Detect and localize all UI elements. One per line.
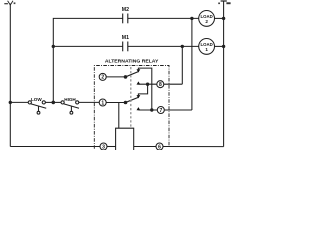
switch blade top (to upper contact) <box>126 72 139 77</box>
wire terminal 7 riser to M2 line <box>191 18 193 110</box>
node L1/control junction <box>9 101 12 104</box>
float switch LOW hanger rod <box>38 106 40 111</box>
wire terminal 8 line <box>138 83 156 85</box>
wire coil to terminal 6 <box>134 146 156 148</box>
wire terminal 8 riser to M1 line <box>181 46 183 84</box>
svg-text:2: 2 <box>205 19 208 24</box>
terminal 8 circle <box>157 81 164 88</box>
wire terminal 2 to pole <box>106 76 125 78</box>
float switch HIGH pivot <box>61 101 64 104</box>
L1 tiny label left <box>4 3 8 4</box>
node M1/load1 junction <box>181 45 184 48</box>
contact arrow bottom-upper <box>137 95 141 98</box>
svg-text:7: 7 <box>159 108 162 114</box>
contact arrow top-upper <box>137 69 141 72</box>
wire LOW to junction <box>45 101 61 103</box>
float switch HIGH blade <box>64 104 79 108</box>
svg-text:LOAD: LOAD <box>201 14 214 19</box>
terminal 1 circle <box>99 99 106 106</box>
wire L1 to LOW switch <box>10 101 28 103</box>
wire top-upper contact to cross link <box>138 68 151 110</box>
wire coil feed from terminal 1 line <box>118 103 120 129</box>
wire M1 line right segment <box>128 45 199 47</box>
float switch HIGH hanger rod <box>70 106 72 111</box>
L2 source bar <box>221 0 227 2</box>
power rail L1 (left vertical) <box>9 4 11 147</box>
wire load2 to L2 <box>215 17 224 19</box>
wire HIGH to terminal 1 <box>79 101 99 103</box>
float switch LOW pivot <box>28 101 31 104</box>
float switch LOW fixed contact <box>42 101 45 104</box>
relay coil box <box>116 128 134 150</box>
node bottom pole <box>124 101 128 105</box>
svg-text:1: 1 <box>205 47 208 52</box>
wire load1 to L2 <box>215 45 224 47</box>
L2 tiny label right <box>226 2 230 4</box>
mechanical linkage (gray dashed) <box>130 67 132 128</box>
terminal 7 circle <box>157 107 164 114</box>
wire M2 line right segment <box>128 17 199 19</box>
node M1 tap on vertical feeder <box>52 45 55 48</box>
wire M1 line <box>53 45 122 47</box>
wire terminal 3 to coil <box>107 146 116 148</box>
node M2/load2 junction <box>190 17 193 20</box>
L1 source arrow <box>8 1 13 5</box>
switch blade bottom (to upper contact) <box>126 97 139 102</box>
node 8-line junction <box>146 83 149 86</box>
load 1 circle <box>199 39 215 55</box>
float switch HIGH fixed contact <box>76 101 79 104</box>
contact arrow bottom-lower <box>137 107 141 110</box>
node load1/L2 junction <box>222 45 225 48</box>
contact M2 bar 1 <box>122 14 124 24</box>
wire M2 line left segment <box>53 18 122 102</box>
contact M1 bar 2 <box>127 42 129 52</box>
float switch HIGH ball <box>70 111 73 114</box>
svg-text:LOW: LOW <box>31 97 42 102</box>
wire cross link down to bottom-upper contact <box>138 84 147 95</box>
wire terminal 7 out <box>164 109 192 111</box>
node load2/L2 junction <box>222 17 225 20</box>
L1 tiny label right <box>14 2 16 4</box>
wire L1 bottom run <box>10 146 100 148</box>
load 2 circle <box>199 11 215 27</box>
node top pole <box>124 75 128 79</box>
svg-text:M1: M1 <box>122 35 129 41</box>
contact M1 bar 1 <box>122 42 124 52</box>
svg-text:LOAD: LOAD <box>201 42 214 47</box>
wire terminal 6 to L2 <box>163 146 224 148</box>
svg-text:M2: M2 <box>122 7 129 13</box>
power rail L2 (right vertical) <box>223 1 225 147</box>
wire terminal 8 out <box>164 83 183 85</box>
relay enclosure dashed box <box>94 66 169 149</box>
node 7-line junction <box>150 108 153 111</box>
wire terminal 7 line <box>138 109 157 111</box>
svg-text:3: 3 <box>102 144 105 150</box>
terminal 3 circle <box>100 143 107 150</box>
svg-text:2: 2 <box>101 75 104 81</box>
contact M2 bar 2 <box>127 14 129 24</box>
svg-text:1: 1 <box>101 100 104 106</box>
node feeder junction <box>52 101 56 105</box>
contact arrow top-lower <box>137 81 141 84</box>
svg-text:6: 6 <box>158 144 161 150</box>
wire terminal 1 to pole <box>106 102 125 104</box>
terminal 6 circle <box>156 143 163 150</box>
float switch LOW blade <box>31 104 46 108</box>
svg-text:HIGH: HIGH <box>64 97 76 102</box>
svg-text:8: 8 <box>159 82 162 88</box>
float switch LOW ball <box>37 111 40 114</box>
svg-text:ALTERNATING RELAY: ALTERNATING RELAY <box>105 59 159 65</box>
L2 tiny label left <box>218 3 220 5</box>
terminal 2 circle <box>99 73 106 80</box>
